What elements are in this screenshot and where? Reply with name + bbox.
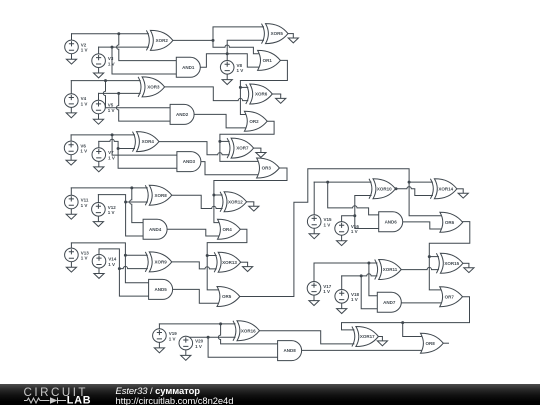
svg-text:V17: V17	[323, 284, 332, 289]
svg-text:1 V: 1 V	[351, 297, 358, 302]
svg-text:XOR15: XOR15	[444, 261, 459, 266]
svg-text:V7: V7	[108, 150, 114, 155]
svg-text:XOR17: XOR17	[360, 334, 375, 339]
svg-text:OR2: OR2	[249, 119, 259, 124]
svg-text:XOR3: XOR3	[147, 85, 160, 90]
svg-text:AND7: AND7	[383, 300, 396, 305]
svg-text:V2: V2	[81, 42, 87, 47]
svg-text:V11: V11	[81, 198, 89, 203]
svg-text:XOR8: XOR8	[154, 193, 167, 198]
svg-text:1 V: 1 V	[108, 108, 115, 113]
svg-text:V15: V15	[324, 217, 333, 222]
svg-text:OR3: OR3	[262, 166, 272, 171]
svg-text:V12: V12	[108, 205, 117, 210]
svg-text:1 V: 1 V	[351, 229, 358, 234]
svg-text:XOR13: XOR13	[222, 260, 237, 265]
svg-text:OR8: OR8	[425, 341, 435, 346]
svg-text:OR7: OR7	[445, 294, 455, 299]
svg-text:1 V: 1 V	[108, 62, 115, 67]
svg-text:1 V: 1 V	[324, 222, 331, 227]
svg-text:XOR14: XOR14	[438, 186, 453, 191]
svg-text:1 V: 1 V	[108, 262, 115, 267]
svg-text:1 V: 1 V	[81, 256, 88, 261]
svg-text:1 V: 1 V	[237, 68, 244, 73]
svg-text:OR4: OR4	[222, 227, 232, 232]
svg-text:1 V: 1 V	[81, 203, 88, 208]
svg-text:XOR9: XOR9	[154, 260, 167, 265]
svg-text:AND6: AND6	[385, 219, 398, 224]
svg-text:1 V: 1 V	[80, 149, 87, 154]
svg-text:OR1: OR1	[263, 58, 273, 63]
svg-text:1 V: 1 V	[195, 344, 202, 349]
svg-text:V18: V18	[351, 292, 360, 297]
svg-text:1 V: 1 V	[323, 289, 330, 294]
svg-text:XOR10: XOR10	[377, 186, 392, 191]
svg-text:AND1: AND1	[182, 65, 195, 70]
svg-text:XOR6: XOR6	[255, 92, 268, 97]
svg-text:V5: V5	[108, 103, 114, 108]
svg-text:OR6: OR6	[445, 220, 455, 225]
svg-text:XOR16: XOR16	[241, 328, 256, 333]
svg-text:AND2: AND2	[176, 112, 189, 117]
svg-text:OR5: OR5	[222, 294, 232, 299]
svg-text:V3: V3	[108, 56, 114, 61]
svg-text:1 V: 1 V	[169, 336, 176, 341]
svg-text:1 V: 1 V	[81, 101, 88, 106]
svg-text:V13: V13	[81, 250, 90, 255]
svg-text:1 V: 1 V	[108, 210, 115, 215]
svg-text:LAB: LAB	[67, 394, 92, 405]
svg-text:XOR7: XOR7	[236, 146, 249, 151]
svg-text:AND8: AND8	[283, 348, 296, 353]
svg-text:XOR4: XOR4	[142, 139, 155, 144]
svg-text:XOR12: XOR12	[228, 199, 243, 204]
svg-text:V19: V19	[169, 331, 178, 336]
svg-text:V16: V16	[351, 224, 360, 229]
svg-text:XOR11: XOR11	[383, 267, 398, 272]
svg-text:V14: V14	[108, 257, 117, 262]
svg-text:1 V: 1 V	[108, 155, 115, 160]
svg-text:V8: V8	[237, 63, 243, 68]
svg-text:V4: V4	[81, 96, 87, 101]
svg-text:AND5: AND5	[154, 287, 167, 292]
svg-text:AND4: AND4	[149, 227, 162, 232]
svg-text:XOR5: XOR5	[271, 31, 284, 36]
svg-text:V20: V20	[195, 339, 204, 344]
svg-text:1 V: 1 V	[81, 48, 88, 53]
svg-text:V6: V6	[80, 143, 86, 148]
svg-text:AND3: AND3	[183, 159, 196, 164]
svg-text:XOR2: XOR2	[156, 38, 169, 43]
